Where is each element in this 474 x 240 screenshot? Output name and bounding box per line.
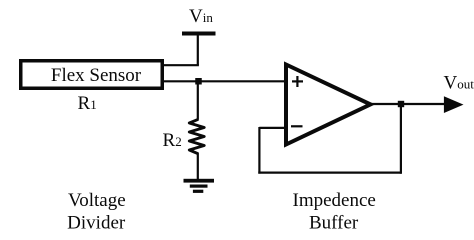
junction node A dot <box>195 78 202 85</box>
wire from Vin bar down <box>197 33 199 65</box>
wire R2 to ground <box>197 153 199 180</box>
power supply bar Vin <box>182 32 216 36</box>
svg-text:Divider: Divider <box>67 213 126 234</box>
svg-text:Impedence: Impedence <box>293 190 376 211</box>
wire op-amp output <box>371 103 446 105</box>
svg-text:Flex Sensor: Flex Sensor <box>51 65 142 86</box>
op-amp minus sign <box>291 125 303 127</box>
flex sensor R1 box <box>21 61 163 89</box>
svg-text:R2: R2 <box>163 130 182 151</box>
op-amp plus sign <box>292 76 303 87</box>
svg-text:Buffer: Buffer <box>309 213 359 234</box>
wire feedback bottom <box>258 172 401 174</box>
wire top stub from flex sensor to Vin drop <box>162 64 199 66</box>
resistor R2 <box>189 119 204 154</box>
svg-text:Vout: Vout <box>444 73 474 94</box>
junction node B dot <box>398 101 404 107</box>
svg-text:Vin: Vin <box>189 6 213 27</box>
arrow Vout <box>444 96 464 113</box>
wire bottom stub from flex sensor to op-amp + input <box>162 80 285 82</box>
wire feedback right vertical <box>400 104 402 174</box>
ground <box>184 179 215 193</box>
wire junction down to R2 <box>197 81 199 120</box>
svg-text:R1: R1 <box>78 93 97 114</box>
wire op-amp minus input <box>259 127 285 129</box>
svg-text:Voltage: Voltage <box>68 190 126 211</box>
op-amp U1 <box>286 65 371 145</box>
wire feedback left vertical <box>258 127 260 174</box>
